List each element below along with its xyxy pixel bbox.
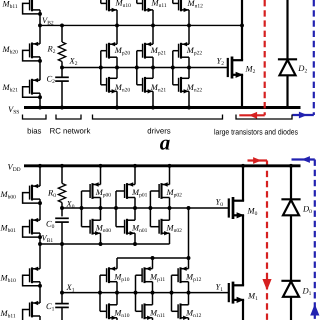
svg-text:a: a xyxy=(160,131,171,155)
svg-text:large transistors and diodes: large transistors and diodes xyxy=(214,127,298,136)
svg-text:RC network: RC network xyxy=(50,127,91,136)
svg-text:bias: bias xyxy=(27,127,41,136)
